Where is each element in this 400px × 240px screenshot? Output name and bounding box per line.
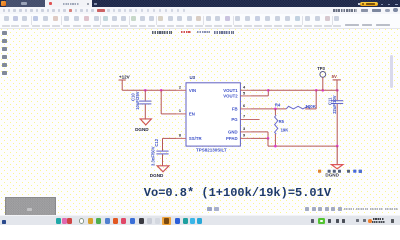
svg-text:VIN: VIN [189,88,196,93]
svg-text:GND: GND [228,130,238,135]
svg-text:PG: PG [231,117,238,122]
junction FB node [274,108,277,111]
junction 5V/C11 [336,89,339,92]
pin 6 FB [232,104,251,112]
svg-text:C12: C12 [154,138,159,146]
power flag +12V [119,74,131,90]
wire ground rail [268,138,337,146]
svg-text:6: 6 [243,104,245,108]
resistor R5 19K [275,109,289,146]
svg-text:SS/TR: SS/TR [189,136,203,141]
svg-text:EN: EN [189,112,195,117]
svg-text:3.3nF/50V: 3.3nF/50V [150,146,155,166]
wire GND/PPAD tie [250,132,268,139]
pin 7 PG [231,115,259,123]
svg-text:FB: FB [232,107,238,112]
svg-text:U3: U3 [190,75,196,80]
formula text [144,186,332,200]
svg-text:1: 1 [179,109,181,113]
svg-text:5: 5 [243,92,245,96]
svg-text:R5: R5 [279,119,285,124]
svg-text:VOUT1: VOUT1 [223,88,238,93]
svg-text:100K: 100K [305,104,316,109]
junction R4 tap [315,89,318,92]
capacitor C10 10uF/25V [131,90,152,119]
svg-text:+12V: +12V [119,74,131,79]
test point TP3 [317,66,325,91]
svg-text:TP3: TP3 [317,66,325,71]
pin 3 GND [228,127,250,135]
pin 1 EN [176,109,195,117]
junction R5 bottom [274,145,277,148]
junction TP3 tap [321,89,324,92]
ground DGND (output rail) [325,146,343,178]
svg-text:7: 7 [243,115,245,119]
junction rail end [336,145,339,148]
svg-text:DGND: DGND [325,173,339,178]
resistor R4 100K [250,90,316,109]
wire +12V rail to VIN [122,89,176,91]
svg-text:R4: R4 [275,103,281,108]
junction PPAD [267,137,270,140]
svg-text:10uF/25V: 10uF/25V [135,91,140,110]
wire VOUT rail [268,89,337,91]
junction VOUT [267,89,270,92]
svg-text:Vo=0.8* (1+100k/19k)=5.01V: Vo=0.8* (1+100k/19k)=5.01V [144,186,332,200]
svg-text:19K: 19K [281,127,289,132]
ground DGND (C10) [135,119,151,132]
svg-text:VOUT2: VOUT2 [223,94,238,99]
capacitor C12 3.3nF/50V [150,138,176,166]
svg-text:3: 3 [243,127,245,131]
pin 4 VOUT1 [223,85,250,93]
ground DGND (C12) [150,166,169,178]
junction at EN branch [160,89,163,92]
junction at C10 [144,89,147,92]
wire EN branch [161,90,176,114]
capacitor C11 22uF/10V [327,90,343,146]
svg-text:5V: 5V [332,74,337,79]
pin 9 PPAD [226,134,250,141]
pin 8 SS/TR [176,133,202,141]
power flag 5V [332,74,341,90]
svg-text:8: 8 [179,133,181,137]
pin 2 VIN [176,85,196,93]
pin 5 VOUT2 [223,92,250,99]
wire VOUT1/VOUT2 tie [250,90,268,96]
svg-text:DGND: DGND [135,127,149,132]
op-amp/regulator U3 TPS82130SILT body [186,75,240,152]
svg-text:4: 4 [243,85,246,89]
selection mini-toolbar [318,170,362,173]
svg-text:9: 9 [243,134,245,138]
svg-text:TPS82130SILT: TPS82130SILT [196,148,227,153]
svg-text:22uF/10V: 22uF/10V [332,95,337,114]
svg-text:2: 2 [179,85,181,89]
svg-text:DGND: DGND [150,173,164,178]
svg-text:PPAD: PPAD [226,136,238,141]
